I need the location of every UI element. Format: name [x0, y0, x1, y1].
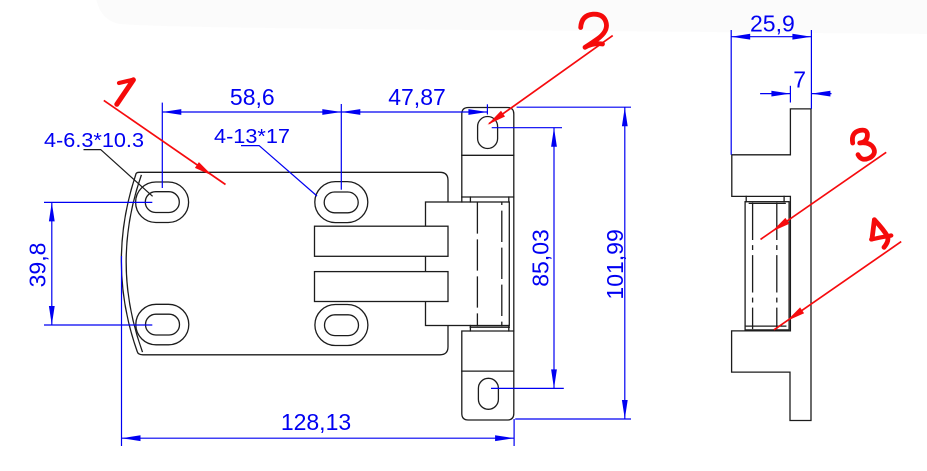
side hidden pin centerlines	[752, 203, 754, 328]
plate left bend inner arc	[126, 176, 142, 352]
dim line 47,87	[341, 111, 487, 113]
black label leader 4-6.3*10.3	[84, 150, 153, 197]
hole bottom-mid inner	[325, 315, 359, 336]
leaf finger bar lower	[315, 272, 449, 302]
dim line 85,03	[553, 128, 555, 389]
scan shade top	[95, 0, 927, 34]
red digit 2	[581, 14, 607, 47]
arrowhead 2	[488, 111, 506, 125]
svg-text:47,87: 47,87	[388, 84, 446, 110]
right strap bottom tab	[462, 331, 514, 420]
hinge left leaf plate outline	[121, 172, 448, 354]
svg-text:7: 7	[793, 67, 806, 93]
strap edge behind barrel	[513, 197, 515, 331]
dim line 101,99	[624, 107, 626, 419]
arrows 47,87	[341, 109, 360, 115]
ext lines 85,03	[491, 128, 564, 389]
barrel bottom tube edge	[470, 326, 509, 328]
side barrel inner tube lines	[746, 203, 786, 326]
hole bottom-left outer	[136, 304, 189, 345]
dim line 7 tails	[760, 93, 831, 95]
leader 1	[104, 100, 226, 184]
svg-text:39,8: 39,8	[24, 243, 50, 288]
hole top-mid inner	[324, 192, 358, 213]
bottom tab step line	[462, 370, 514, 372]
svg-text:4-13*17: 4-13*17	[214, 125, 290, 148]
dim line 58,6	[162, 111, 341, 113]
leaf finger bar upper	[315, 226, 449, 256]
svg-text:85,03: 85,03	[528, 229, 554, 287]
red callouts	[104, 36, 901, 330]
ext line strap hole top	[486, 104, 488, 114]
hole top-left inner	[145, 192, 179, 213]
svg-text:4-6.3*10.3: 4-6.3*10.3	[44, 129, 144, 152]
dim line 39,8	[51, 202, 53, 325]
top neck verticals	[462, 197, 509, 202]
svg-text:25,9: 25,9	[750, 11, 795, 37]
svg-text:101,99: 101,99	[602, 229, 628, 299]
knuckle barrel box front view	[426, 202, 510, 326]
dim line 128,13	[122, 437, 515, 439]
blue dimension graphics	[44, 30, 832, 446]
leader 2	[489, 36, 613, 124]
arrows 85,03	[551, 128, 557, 147]
arrowhead 3	[772, 218, 790, 232]
arrows 39,8	[49, 202, 55, 221]
red digit 3	[852, 130, 874, 159]
hole bottom-mid outer	[315, 305, 368, 346]
side neck verticals	[746, 196, 784, 201]
ext lines 25,9	[731, 30, 811, 155]
hole top-left outer	[136, 182, 189, 223]
side view profile plate	[732, 109, 811, 421]
arrowhead 1	[195, 162, 213, 176]
right strap top tab	[462, 108, 514, 198]
red digit 4	[872, 220, 874, 239]
blue arrowheads	[49, 34, 831, 441]
arrows 25,9	[731, 34, 750, 40]
bottom tab hole	[478, 378, 498, 409]
hole top-mid outer	[315, 182, 368, 223]
top tab step line	[462, 154, 514, 156]
arrows 58,6	[162, 109, 181, 115]
ext line hole TM center	[340, 104, 342, 190]
dim line 25,9	[731, 36, 811, 38]
arrows 7	[771, 91, 790, 97]
arrows 101,99	[622, 107, 628, 126]
ext line hole TL center	[161, 103, 163, 188]
side barrel capsule	[745, 202, 789, 330]
ext tick 7	[789, 86, 791, 103]
hidden pin lines front	[476, 203, 478, 326]
ext lines 101,99	[515, 107, 631, 419]
top tab hole	[478, 117, 498, 149]
ext lines 128,13	[122, 256, 515, 446]
ext lines 39,8	[44, 202, 152, 325]
arrowhead 4	[787, 307, 805, 321]
hole bottom-left inner	[146, 314, 180, 335]
leader 3	[761, 152, 887, 239]
red digit 1	[119, 80, 133, 83]
svg-text:128,13: 128,13	[281, 409, 351, 435]
bottom neck verticals	[470, 326, 508, 332]
svg-text:58,6: 58,6	[230, 84, 275, 110]
leader 4	[774, 242, 901, 330]
leader 4-13*17	[241, 146, 317, 196]
arrows 128,13	[122, 435, 141, 441]
